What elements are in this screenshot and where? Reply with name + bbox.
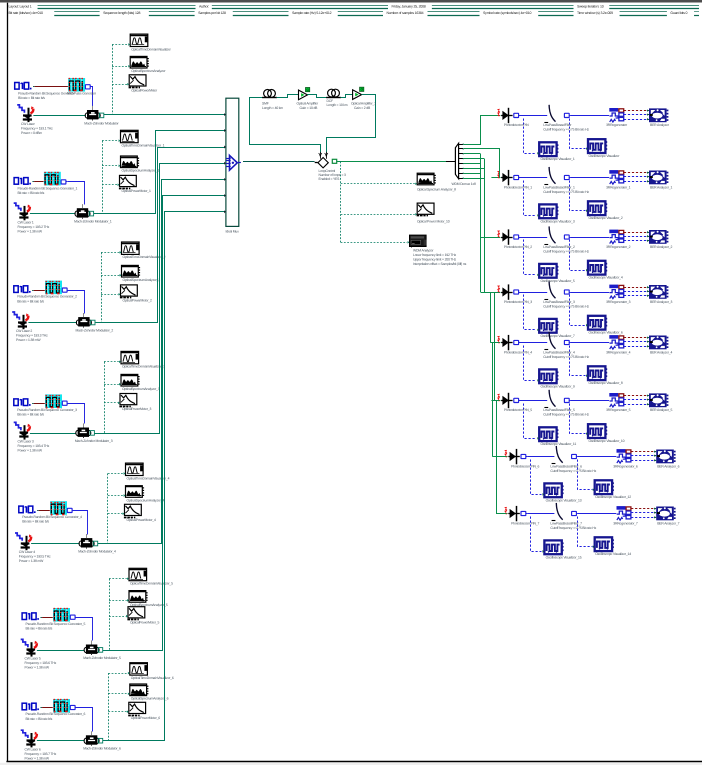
svg-text:Length = 10 km: Length = 10 km — [327, 103, 348, 107]
svg-text:OpticalPowerMeter_2: OpticalPowerMeter_2 — [123, 299, 152, 303]
svg-text:Lower frequency limit = 192 TH: Lower frequency limit = 192 THz — [413, 253, 457, 257]
svg-text:Ideal Mux: Ideal Mux — [226, 230, 240, 234]
svg-text:CW Laser 6: CW Laser 6 — [25, 747, 41, 751]
svg-text:Bit rate = Bit rate b/s: Bit rate = Bit rate b/s — [17, 299, 44, 303]
svg-text:Oscilloscope Visualizer_5: Oscilloscope Visualizer_5 — [541, 279, 575, 283]
svg-text:CW Laser 2: CW Laser 2 — [16, 329, 32, 333]
svg-text:OpticalSpectrumAnalyzer: OpticalSpectrumAnalyzer — [131, 69, 166, 73]
svg-text:Cutoff frequency = 0.75 Bit ra: Cutoff frequency = 0.75 Bit rate Hz — [543, 355, 589, 359]
svg-text:Photodetector PIN_3: Photodetector PIN_3 — [504, 300, 532, 304]
svg-text:Power = 1.38 mW: Power = 1.38 mW — [25, 666, 50, 670]
svg-text:Sweep iteration: 10: Sweep iteration: 10 — [577, 5, 604, 9]
svg-text:Bit rate = Bit rate b/s: Bit rate = Bit rate b/s — [18, 96, 45, 100]
svg-text:Length = 40 km: Length = 40 km — [262, 106, 283, 110]
svg-text:WDM Analyzer: WDM Analyzer — [413, 249, 434, 253]
svg-text:Cutoff frequency = 0.75 Bit ra: Cutoff frequency = 0.75 Bit rate Hz — [550, 469, 596, 473]
svg-text:Power = 1.38 mW: Power = 1.38 mW — [25, 756, 50, 760]
svg-text:Power = 1.38 mW: Power = 1.38 mW — [19, 559, 44, 563]
svg-text:Bit rate = Bit rate b/s: Bit rate = Bit rate b/s — [18, 191, 45, 195]
svg-text:Frequency = 193.7 THz: Frequency = 193.7 THz — [25, 752, 57, 756]
svg-text:CW Laser 4: CW Laser 4 — [19, 550, 35, 554]
svg-text:Pseudo-Random Bit Sequence Gen: Pseudo-Random Bit Sequence Generator_2 — [17, 295, 77, 299]
svg-text:Photodetector PIN_1: Photodetector PIN_1 — [504, 185, 532, 189]
svg-text:Guard bits 0: Guard bits 0 — [670, 11, 687, 15]
svg-text:Oscilloscope Visualizer_9: Oscilloscope Visualizer_9 — [541, 384, 575, 388]
svg-text:Power = 1.38 mW: Power = 1.38 mW — [18, 229, 43, 233]
svg-text:Friday, January 25, 2008: Friday, January 25, 2008 — [392, 5, 426, 9]
svg-text:OpticalTimeDomainVisualizer: OpticalTimeDomainVisualizer — [131, 47, 171, 51]
svg-text:Mach-Zehnder Modulator_6: Mach-Zehnder Modulator_6 — [83, 747, 121, 751]
svg-text:Bit rate (bits/sec) 4e+010: Bit rate (bits/sec) 4e+010 — [9, 11, 44, 15]
svg-text:3RRegenerator_3: 3RRegenerator_3 — [606, 300, 631, 304]
svg-text:Power = 1.38 mW: Power = 1.38 mW — [18, 449, 43, 453]
svg-text:CW Laser 1: CW Laser 1 — [18, 220, 34, 224]
svg-text:CW Laser 5: CW Laser 5 — [25, 657, 41, 661]
svg-text:LowPassBesselFilter_6: LowPassBesselFilter_6 — [550, 464, 582, 468]
svg-text:3RRegenerator_2: 3RRegenerator_2 — [606, 245, 631, 249]
svg-text:OpticalTimeDomainVisualizer_1: OpticalTimeDomainVisualizer_1 — [122, 144, 165, 148]
svg-text:CW Laser 3: CW Laser 3 — [18, 440, 34, 444]
svg-text:Frequency = 193.6 THz: Frequency = 193.6 THz — [25, 661, 57, 665]
svg-text:OpticalSpectrumAnalyzer_3: OpticalSpectrumAnalyzer_3 — [122, 387, 160, 391]
svg-text:Pseudo-Random Bit Sequence Gen: Pseudo-Random Bit Sequence Generator_6 — [26, 712, 86, 716]
svg-text:OpticalSpectrumAnalyzer_6: OpticalSpectrumAnalyzer_6 — [131, 697, 169, 701]
svg-text:3RRegenerator_6: 3RRegenerator_6 — [613, 464, 638, 468]
svg-text:BER Analyzer_6: BER Analyzer_6 — [657, 464, 679, 468]
svg-text:Oscilloscope Visualizer_14: Oscilloscope Visualizer_14 — [595, 552, 631, 556]
svg-text:Oscilloscope Visualizer_3: Oscilloscope Visualizer_3 — [541, 219, 575, 223]
svg-text:Cutoff frequency = 0.75 Bit ra: Cutoff frequency = 0.75 Bit rate Hz — [543, 128, 589, 132]
svg-text:3RRegenerator: 3RRegenerator — [606, 123, 628, 127]
svg-text:Oscilloscope Visualizer_2: Oscilloscope Visualizer_2 — [589, 216, 623, 220]
svg-text:OpticalSpectrumAnalyzer_4: OpticalSpectrumAnalyzer_4 — [127, 498, 165, 502]
svg-text:Oscilloscope Visualizer_7: Oscilloscope Visualizer_7 — [541, 334, 575, 338]
svg-text:Bit rate = Bit rate b/s: Bit rate = Bit rate b/s — [22, 520, 49, 524]
svg-text:Optical Spectrum Analyzer_8: Optical Spectrum Analyzer_8 — [417, 188, 456, 192]
svg-text:Oscilloscope Visualizer_4: Oscilloscope Visualizer_4 — [589, 276, 623, 280]
svg-text:BER Analyzer_4: BER Analyzer_4 — [650, 350, 672, 354]
svg-text:Frequency = 193.4 THz: Frequency = 193.4 THz — [18, 444, 50, 448]
svg-text:BER Analyzer_5: BER Analyzer_5 — [650, 408, 672, 412]
svg-text:Oscilloscope Visualizer_11: Oscilloscope Visualizer_11 — [541, 442, 577, 446]
svg-text:BER Analyzer_7: BER Analyzer_7 — [657, 521, 679, 525]
svg-text:Author:: Author: — [199, 5, 209, 9]
svg-text:CW Laser: CW Laser — [21, 122, 36, 126]
svg-text:Cutoff frequency = 0.75 Bit ra: Cutoff frequency = 0.75 Bit rate Hz — [543, 190, 589, 194]
svg-text:Pseudo-Random Bit Sequence Gen: Pseudo-Random Bit Sequence Generator_5 — [26, 622, 86, 626]
svg-text:Time window (s) 3.2e-009: Time window (s) 3.2e-009 — [577, 11, 613, 15]
svg-text:Photodetector PIN_2: Photodetector PIN_2 — [504, 245, 532, 249]
svg-text:...: ... — [412, 241, 415, 245]
svg-text:Gain = 2 dB: Gain = 2 dB — [354, 106, 371, 110]
svg-text:OpticalPowerMeter_4: OpticalPowerMeter_4 — [127, 518, 156, 522]
svg-text:Cutoff frequency = 0.75 Bit ra: Cutoff frequency = 0.75 Bit rate Hz — [543, 249, 589, 253]
svg-text:OpticalTimeDomainVisualizer_6: OpticalTimeDomainVisualizer_6 — [131, 676, 174, 680]
svg-text:Power = 0 dBm: Power = 0 dBm — [21, 131, 42, 135]
svg-text:Frequency = 193.2 THz: Frequency = 193.2 THz — [18, 225, 50, 229]
svg-text:Samples per bit 128: Samples per bit 128 — [198, 11, 226, 15]
svg-text:LowPassBesselFilter_1: LowPassBesselFilter_1 — [543, 185, 575, 189]
svg-text:Optical Power Meter_10: Optical Power Meter_10 — [417, 220, 450, 224]
svg-text:Oscilloscope Visualizer_8: Oscilloscope Visualizer_8 — [589, 381, 623, 385]
svg-text:OpticalTimeDomainVisualizer_4: OpticalTimeDomainVisualizer_4 — [127, 476, 170, 480]
svg-text:WDM Demux 1x8: WDM Demux 1x8 — [452, 182, 477, 186]
svg-text:BER Analyzer_2: BER Analyzer_2 — [650, 245, 672, 249]
svg-text:OpticalSpectrumAnalyzer_2: OpticalSpectrumAnalyzer_2 — [123, 278, 161, 282]
svg-text:LowPassBesselFilter_5: LowPassBesselFilter_5 — [543, 408, 575, 412]
svg-text:Gain = 10 dB: Gain = 10 dB — [300, 106, 319, 110]
svg-text:LowPassBesselFilter_7: LowPassBesselFilter_7 — [550, 521, 582, 525]
svg-text:OpticalPowerMeter: OpticalPowerMeter — [131, 88, 158, 92]
svg-text:Oscilloscope Visualizer_12: Oscilloscope Visualizer_12 — [595, 495, 631, 499]
svg-text:Photodetector PIN: Photodetector PIN — [504, 123, 529, 127]
svg-text:Pseudo-Random Bit Sequence Gen: Pseudo-Random Bit Sequence Generator_1 — [18, 187, 78, 191]
svg-text:Bit rate = Bit rate b/s: Bit rate = Bit rate b/s — [17, 413, 44, 417]
svg-text:Layout: Layout 1: Layout: Layout 1 — [9, 5, 32, 9]
svg-text:LowPassBesselFilter_3: LowPassBesselFilter_3 — [543, 300, 575, 304]
svg-text:Mach-Zehnder Modulator_2: Mach-Zehnder Modulator_2 — [76, 329, 114, 333]
svg-text:Cutoff frequency = 0.75 Bit ra: Cutoff frequency = 0.75 Bit rate Hz — [543, 413, 589, 417]
svg-text:BER Analyzer: BER Analyzer — [650, 123, 670, 127]
svg-text:Symbol rate (symbols/sec) 4e: Symbol rate (symbols/sec) 4e+010 — [483, 11, 531, 15]
svg-text:3RRegenerator_5: 3RRegenerator_5 — [606, 408, 631, 412]
svg-text:Oscilloscope Visualizer: Oscilloscope Visualizer — [589, 154, 621, 158]
svg-text:Power = 1.38 mW: Power = 1.38 mW — [16, 338, 41, 342]
svg-text:OpticalSpectrumAnalyzer_1: OpticalSpectrumAnalyzer_1 — [122, 169, 160, 173]
svg-text:Mach-Zehnder Modulator_4: Mach-Zehnder Modulator_4 — [78, 550, 116, 554]
svg-text:Mach-Zehnder Modulator_5: Mach-Zehnder Modulator_5 — [83, 656, 121, 660]
svg-text:Photodetector PIN_7: Photodetector PIN_7 — [511, 521, 539, 525]
svg-text:Bit rate = Bit rate b/s: Bit rate = Bit rate b/s — [26, 627, 53, 631]
svg-text:LowPassBesselFilter_2: LowPassBesselFilter_2 — [543, 245, 575, 249]
svg-text:3RRegenerator_1: 3RRegenerator_1 — [606, 185, 631, 189]
svg-text:Oscilloscope Visualizer_1: Oscilloscope Visualizer_1 — [541, 157, 575, 161]
svg-text:BER Analyzer_3: BER Analyzer_3 — [650, 300, 672, 304]
svg-text:OpticalPowerMeter_1: OpticalPowerMeter_1 — [122, 189, 151, 193]
svg-text:Oscilloscope Visualizer_10: Oscilloscope Visualizer_10 — [589, 439, 625, 443]
svg-text:Frequency = 193.5 THz: Frequency = 193.5 THz — [19, 555, 51, 559]
svg-text:Photodetector PIN_5: Photodetector PIN_5 — [504, 408, 532, 412]
svg-text:Mach-Zehnder Modulator_1: Mach-Zehnder Modulator_1 — [74, 220, 112, 224]
svg-text:BER Analyzer_1: BER Analyzer_1 — [650, 185, 672, 189]
svg-text:Enabled = YES: Enabled = YES — [319, 177, 341, 181]
svg-text:Cutoff frequency = 0.75 Bit ra: Cutoff frequency = 0.75 Bit rate Hz — [550, 526, 596, 530]
svg-text:Pseudo-Random Bit Sequence Gen: Pseudo-Random Bit Sequence Generator_4 — [22, 515, 82, 519]
svg-text:NRZ Pulse Generator: NRZ Pulse Generator — [67, 91, 97, 95]
svg-text:Oscilloscope Visualizer_6: Oscilloscope Visualizer_6 — [589, 331, 623, 335]
svg-text:Oscilloscope Visualizer_15: Oscilloscope Visualizer_15 — [546, 555, 582, 559]
svg-text:Frequency = 193.3 THz: Frequency = 193.3 THz — [16, 334, 48, 338]
svg-text:OpticalPowerMeter_3: OpticalPowerMeter_3 — [122, 407, 151, 411]
svg-text:LowPassBesselFilter: LowPassBesselFilter — [543, 123, 572, 127]
svg-text:Photodetector PIN_6: Photodetector PIN_6 — [511, 464, 539, 468]
svg-text:Mach-Zehnder Modulator: Mach-Zehnder Modulator — [84, 121, 119, 125]
svg-text:Upper frequency limit = 200 TH: Upper frequency limit = 200 THz — [413, 258, 457, 262]
svg-text:Bit rate = Bit rate b/s: Bit rate = Bit rate b/s — [26, 717, 53, 721]
svg-text:Interpolation offset = Samples: Interpolation offset = Samples/bit (0ff)… — [413, 262, 467, 266]
svg-text:Sample rate (Hz) 5.12e+012: Sample rate (Hz) 5.12e+012 — [292, 11, 332, 15]
svg-text:OpticalTimeDomainVisualizer_5: OpticalTimeDomainVisualizer_5 — [130, 582, 173, 586]
svg-text:Oscilloscope Visualizer_13: Oscilloscope Visualizer_13 — [546, 498, 582, 502]
svg-text:Frequency = 193.1 THz: Frequency = 193.1 THz — [21, 127, 53, 131]
svg-text:3RRegenerator_4: 3RRegenerator_4 — [606, 350, 631, 354]
svg-text:OpticalPowerMeter_5: OpticalPowerMeter_5 — [130, 620, 159, 624]
svg-text:LowPassBesselFilter_4: LowPassBesselFilter_4 — [543, 350, 575, 354]
svg-text:3RRegenerator_7: 3RRegenerator_7 — [613, 521, 638, 525]
svg-text:Photodetector PIN_4: Photodetector PIN_4 — [504, 350, 532, 354]
svg-text:Pseudo-Random Bit Sequence Gen: Pseudo-Random Bit Sequence Generator_3 — [17, 408, 77, 412]
svg-text:Mach-Zehnder Modulator_3: Mach-Zehnder Modulator_3 — [75, 439, 113, 443]
svg-text:Sequence length (bits) 128: Sequence length (bits) 128 — [103, 11, 140, 15]
svg-text:Number of samples 16384: Number of samples 16384 — [387, 11, 424, 15]
svg-text:OpticalTimeDomainVisualizer_3: OpticalTimeDomainVisualizer_3 — [122, 365, 165, 369]
svg-text:OpticalPowerMeter_6: OpticalPowerMeter_6 — [131, 716, 160, 720]
svg-text:Cutoff frequency = 0.75 Bit ra: Cutoff frequency = 0.75 Bit rate Hz — [543, 304, 589, 308]
